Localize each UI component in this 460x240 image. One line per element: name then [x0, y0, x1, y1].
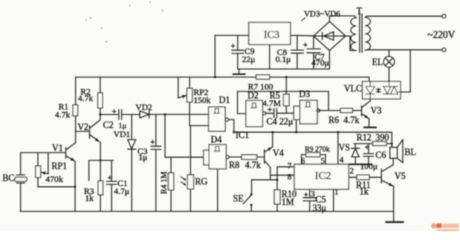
svg-text:VS: VS	[339, 142, 351, 152]
svg-text:390: 390	[376, 132, 390, 142]
svg-text:8: 8	[288, 173, 292, 182]
svg-text:D1: D1	[219, 95, 230, 105]
svg-text:V4: V4	[273, 148, 284, 158]
svg-text:1μ: 1μ	[139, 152, 148, 162]
svg-text:VLC: VLC	[344, 84, 362, 94]
svg-text:~220V: ~220V	[428, 30, 456, 41]
svg-text:RP1: RP1	[52, 161, 68, 171]
svg-text:V3: V3	[371, 106, 382, 116]
svg-text:4.7k: 4.7k	[245, 160, 261, 170]
svg-text:6: 6	[301, 157, 305, 166]
svg-text:150k: 150k	[194, 95, 212, 105]
svg-text:4.7k: 4.7k	[78, 93, 94, 103]
svg-text:33μ: 33μ	[313, 203, 327, 213]
svg-text:1μ: 1μ	[119, 121, 127, 130]
svg-text:C6: C6	[376, 150, 387, 160]
svg-text:R8: R8	[229, 160, 240, 170]
svg-text:BC: BC	[3, 173, 15, 183]
svg-text:1k: 1k	[360, 187, 370, 197]
svg-text:4.7k: 4.7k	[344, 115, 360, 125]
svg-text:V1: V1	[52, 143, 63, 153]
svg-text:4.7μ: 4.7μ	[114, 186, 130, 196]
svg-text:D2: D2	[248, 91, 259, 101]
svg-text:EL: EL	[372, 57, 383, 67]
svg-text:0.1μ: 0.1μ	[276, 54, 292, 64]
svg-text:SE: SE	[233, 194, 244, 204]
svg-text:7: 7	[288, 161, 292, 170]
svg-text:T: T	[357, 6, 363, 16]
svg-text:100μ: 100μ	[360, 161, 378, 171]
svg-text:VD2: VD2	[136, 102, 153, 112]
svg-text:5: 5	[321, 157, 325, 166]
svg-text:4.7M: 4.7M	[263, 98, 282, 108]
svg-text:4.7k: 4.7k	[55, 110, 71, 120]
svg-text:C4 22μ: C4 22μ	[267, 116, 294, 126]
svg-text:IC1: IC1	[236, 130, 250, 140]
svg-text:IC2: IC2	[315, 170, 332, 182]
svg-text:D4: D4	[211, 134, 222, 144]
svg-text:2: 2	[350, 167, 354, 176]
svg-text:V5: V5	[395, 171, 406, 181]
svg-text:BL: BL	[405, 147, 417, 157]
svg-text:4: 4	[340, 156, 344, 165]
svg-text:R12: R12	[357, 132, 372, 142]
svg-text:R4 1M: R4 1M	[160, 172, 169, 194]
svg-text:470μ: 470μ	[312, 57, 330, 67]
svg-text:1M: 1M	[282, 197, 295, 207]
svg-text:3: 3	[311, 189, 315, 198]
svg-text:V2: V2	[78, 122, 89, 132]
svg-text:1: 1	[335, 188, 339, 197]
svg-text:D3: D3	[299, 89, 310, 99]
svg-text:470k: 470k	[46, 174, 64, 184]
svg-text:1k: 1k	[85, 193, 94, 203]
svg-text:VD3~VD6: VD3~VD6	[304, 9, 340, 18]
svg-text:R6: R6	[329, 115, 340, 125]
svg-text:VD1: VD1	[114, 129, 131, 139]
svg-text:22μ: 22μ	[242, 54, 256, 64]
svg-text:IC3: IC3	[264, 30, 280, 41]
svg-text:RG: RG	[195, 177, 208, 187]
svg-text:R9 270k: R9 270k	[305, 144, 330, 153]
svg-text:C2: C2	[103, 120, 114, 130]
